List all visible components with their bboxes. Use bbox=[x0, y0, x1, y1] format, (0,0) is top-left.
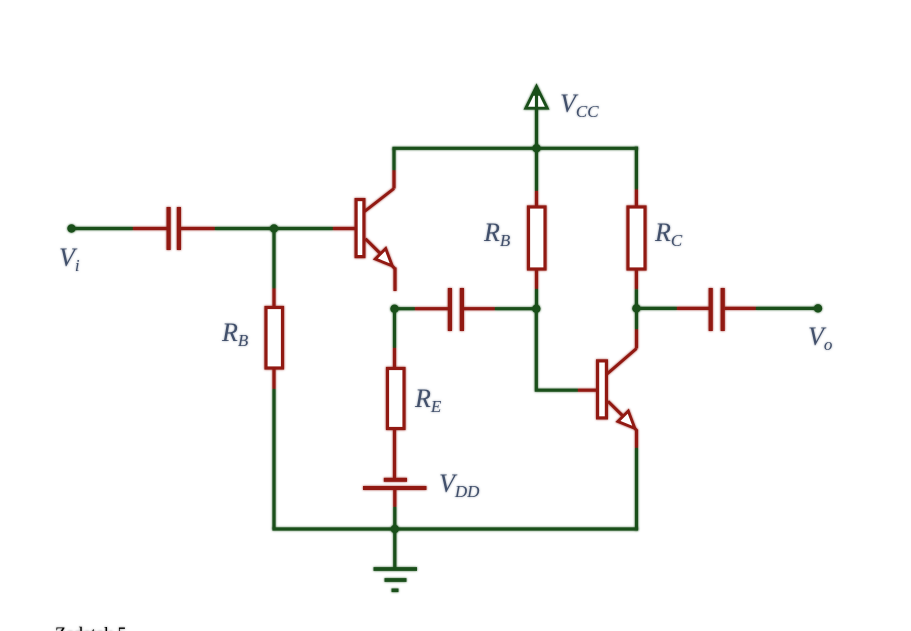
svg-text:RC: RC bbox=[654, 218, 683, 250]
wire Q2 collector to node D bbox=[635, 308, 638, 329]
wire Q1 collector to top rail bbox=[392, 148, 395, 170]
battery VDD bbox=[363, 478, 427, 507]
label VCC bbox=[560, 89, 599, 121]
node D junction bbox=[632, 304, 641, 313]
label VDD bbox=[439, 469, 480, 501]
wire node B down to RE bbox=[393, 309, 396, 348]
capacitor C2 bbox=[415, 288, 495, 331]
svg-text:RE: RE bbox=[414, 384, 442, 416]
wire node B to C2 bbox=[395, 307, 416, 310]
wire Vi to C1 bbox=[72, 227, 134, 230]
svg-text:Vi: Vi bbox=[59, 243, 80, 275]
svg-text:RB: RB bbox=[221, 318, 249, 350]
svg-text:RB: RB bbox=[483, 218, 511, 250]
wire node D to C3 bbox=[636, 307, 677, 310]
label R_C bbox=[654, 218, 683, 250]
svg-text:VCC: VCC bbox=[560, 89, 599, 121]
label R_B (left) bbox=[221, 318, 249, 350]
transistor Q2 bbox=[578, 329, 637, 448]
wire battery to ground rail bbox=[393, 507, 396, 529]
node ground junction bbox=[391, 525, 400, 534]
label R_B (middle) bbox=[483, 218, 511, 250]
wire node C to Q2 base bbox=[536, 309, 578, 391]
resistor R_E bbox=[388, 348, 405, 478]
svg-text:Zadatak 5: Zadatak 5 bbox=[55, 623, 126, 631]
label Vi bbox=[59, 243, 80, 275]
node VCC junction bbox=[532, 144, 541, 153]
node Vo terminal bbox=[814, 304, 823, 313]
node A junction bbox=[270, 224, 279, 233]
resistor R_B2 (middle) bbox=[529, 191, 546, 289]
wire C1 to node A bbox=[215, 227, 274, 230]
transistor Q1 bbox=[333, 170, 395, 291]
svg-text:Vo: Vo bbox=[808, 322, 832, 354]
capacitor C3 bbox=[677, 288, 756, 331]
resistor R_B1 (left) bbox=[266, 289, 283, 390]
wire rail corner down to RC bbox=[635, 147, 638, 190]
label R_E bbox=[414, 384, 442, 416]
wire RC to node D bbox=[635, 289, 638, 308]
wire C3 to Vo bbox=[756, 307, 818, 310]
text Zadatak 5 bbox=[55, 623, 126, 631]
resistor R_C bbox=[628, 190, 645, 290]
capacitor C1 bbox=[133, 207, 215, 250]
power VCC symbol bbox=[526, 86, 547, 149]
wire node A down to RB1 bbox=[272, 229, 275, 289]
wire rail to RB2 bbox=[535, 148, 538, 191]
svg-text:VDD: VDD bbox=[439, 469, 480, 501]
node C junction bbox=[532, 304, 541, 313]
wire RB2 to node C bbox=[535, 289, 538, 309]
wire node A to Q1 base bbox=[274, 227, 333, 230]
wire Q2 emitter down to ground rail bbox=[635, 448, 638, 531]
ground rail wire bbox=[272, 527, 638, 530]
ground symbol bbox=[374, 529, 418, 590]
wire RB1 down to ground rail bbox=[272, 389, 275, 529]
node Vi terminal bbox=[67, 224, 76, 233]
node B emitter junction bbox=[390, 304, 399, 313]
wire C2 to node C bbox=[495, 307, 536, 310]
label Vo bbox=[808, 322, 832, 354]
top rail VCC bbox=[392, 147, 638, 150]
